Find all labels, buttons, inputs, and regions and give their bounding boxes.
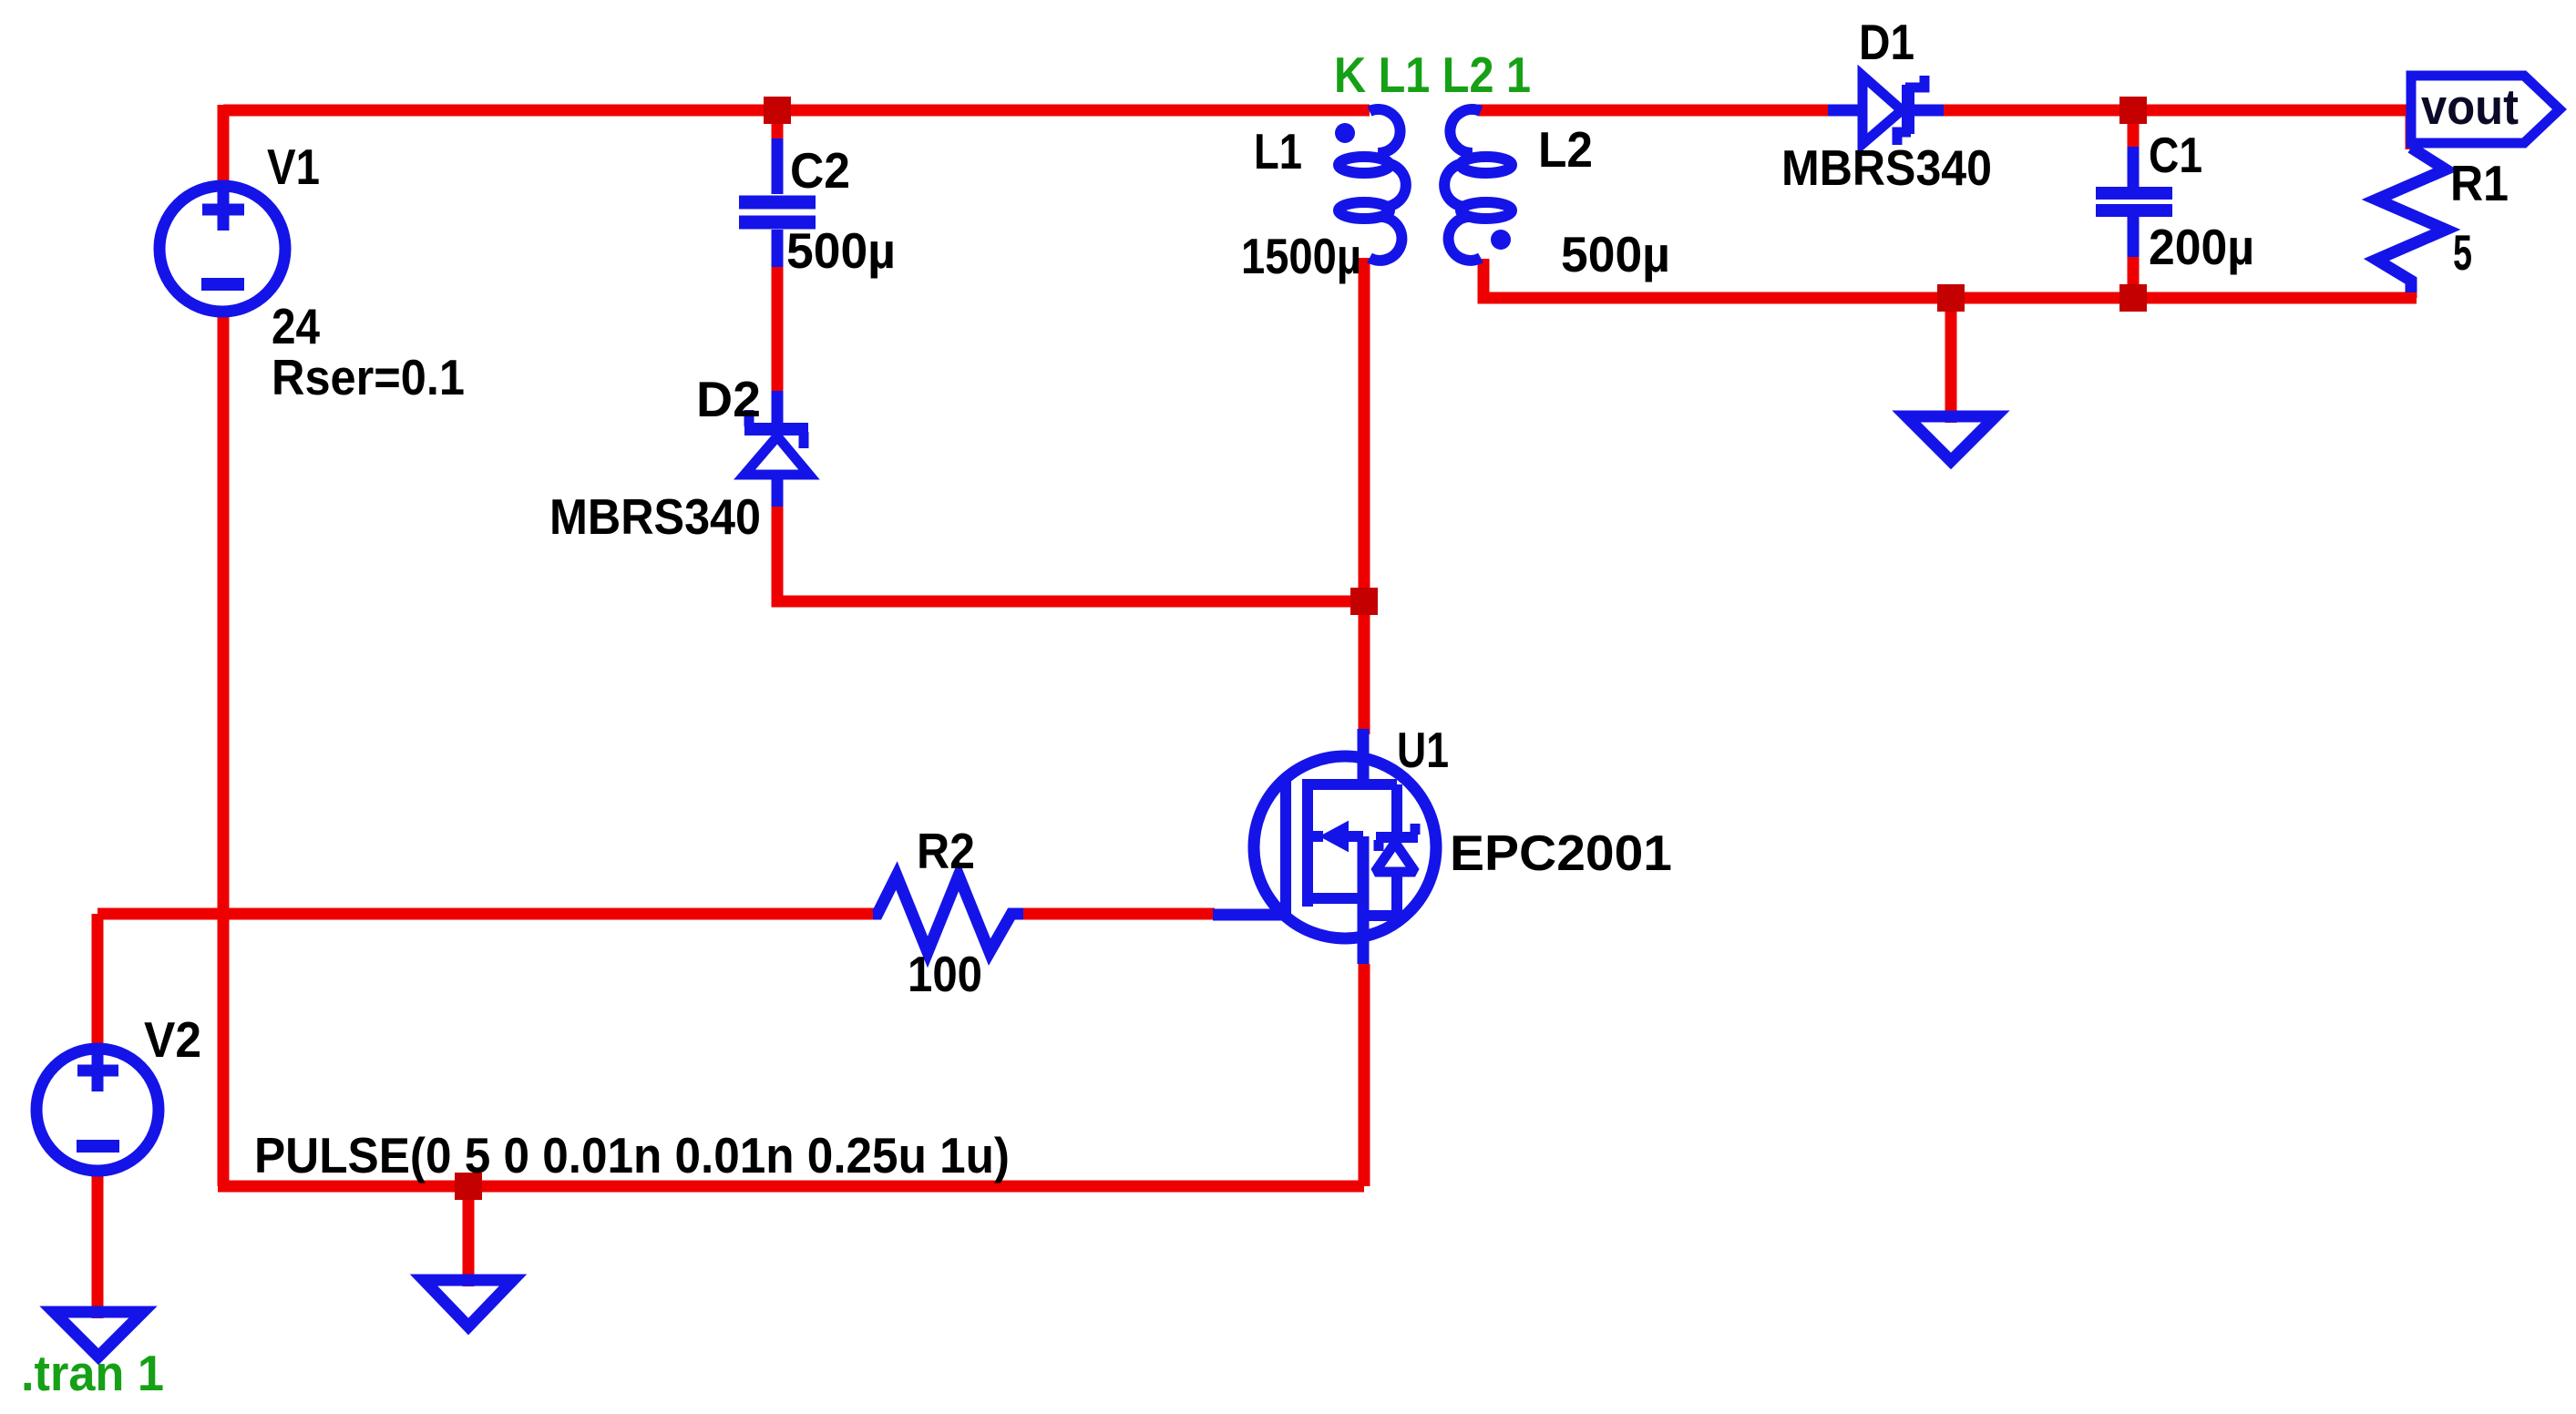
wire V2 top stub	[92, 914, 104, 1048]
svg-text:PULSE(0 5 0 0.01n 0.01n 0.25u: PULSE(0 5 0 0.01n 0.01n 0.25u 1u)	[254, 1127, 1010, 1183]
capacitor C2	[739, 138, 816, 267]
resistor R1	[2376, 148, 2446, 292]
svg-text:24: 24	[272, 298, 320, 354]
svg-text:V2: V2	[144, 1011, 201, 1068]
diode D1	[1828, 76, 1944, 145]
wire D2 anode to drain node	[777, 507, 1364, 601]
node secondary ground junction	[1937, 284, 1965, 312]
node bottom ground junction	[455, 1173, 482, 1200]
wire bottom rail	[218, 1181, 1364, 1193]
svg-text:200µ: 200µ	[2149, 219, 2254, 275]
wire C1 bottom stub	[2128, 257, 2140, 298]
ground (V2)	[54, 1312, 143, 1357]
node C2 top junction	[764, 97, 791, 124]
node C1 bottom junction	[2119, 284, 2147, 312]
svg-text:Rser=0.1: Rser=0.1	[272, 349, 465, 405]
svg-text:5: 5	[2453, 224, 2472, 281]
svg-text:L1: L1	[1254, 123, 1302, 179]
svg-text:L2: L2	[1538, 121, 1593, 178]
L1 phase dot	[1335, 123, 1355, 143]
wire bottom ground stub	[463, 1186, 475, 1286]
wire secondary ground stub	[1945, 298, 1957, 423]
diode D2	[744, 391, 809, 507]
wire top rail right (L2 top to vout)	[1478, 105, 2411, 117]
wire L2 bottom to secondary rail	[1483, 259, 2417, 298]
svg-text:C1: C1	[2149, 127, 2202, 183]
svg-text:.tran 1: .tran 1	[21, 1345, 164, 1401]
inductor L2 (secondary winding)	[1444, 109, 1512, 261]
svg-text:K L1 L2 1: K L1 L2 1	[1334, 46, 1531, 103]
voltage source V2	[36, 1049, 159, 1171]
svg-text:EPC2001: EPC2001	[1450, 825, 1672, 881]
svg-text:D1: D1	[1859, 14, 1914, 70]
wire L1 bottom to MOSFET drain	[1359, 258, 1370, 734]
svg-text:vout: vout	[2421, 78, 2519, 135]
wire V2 minus to ground	[92, 1173, 104, 1318]
svg-text:100: 100	[908, 946, 982, 1002]
svg-text:V1: V1	[267, 138, 320, 195]
svg-text:U1: U1	[1397, 722, 1449, 778]
ground (bottom rail)	[424, 1280, 513, 1327]
wire gate right (R2 to U1 gate)	[1021, 908, 1215, 920]
wire C1 top stub	[2128, 110, 2140, 147]
svg-text:R2: R2	[917, 823, 975, 879]
wire R1 bottom stub	[2406, 278, 2417, 298]
svg-text:MBRS340: MBRS340	[549, 488, 761, 545]
svg-text:500µ: 500µ	[786, 222, 896, 279]
L2 phase dot	[1491, 230, 1511, 250]
wire MOSFET source down	[1359, 964, 1370, 1186]
wire C2 bottom to D2 cathode	[772, 267, 784, 413]
wire R1 top stub	[2406, 110, 2417, 149]
svg-text:500µ: 500µ	[1561, 226, 1670, 282]
node drain junction	[1350, 588, 1378, 615]
svg-text:1500µ: 1500µ	[1241, 228, 1361, 284]
node C1 top junction	[2119, 97, 2147, 124]
wire top rail left (V1 plus to L1 top)	[223, 105, 1370, 117]
voltage source V1	[159, 186, 285, 312]
wire gate left (V2 to R2)	[97, 908, 877, 920]
svg-text:MBRS340: MBRS340	[1781, 139, 1992, 196]
capacitor C1	[2096, 147, 2172, 257]
inductor L1 (primary winding)	[1339, 109, 1406, 261]
svg-text:R1: R1	[2450, 155, 2509, 211]
svg-text:D2: D2	[696, 371, 761, 427]
wire left rail (V1 branch down)	[218, 105, 230, 1186]
node vout output port flag	[2411, 76, 2560, 143]
transistor U1 (EPC2001 GaN FET)	[1213, 729, 1436, 964]
resistor R2	[873, 876, 1023, 952]
ground (secondary rail)	[1906, 416, 1996, 461]
wire C2 top stub	[772, 110, 784, 140]
svg-text:C2: C2	[790, 142, 850, 199]
